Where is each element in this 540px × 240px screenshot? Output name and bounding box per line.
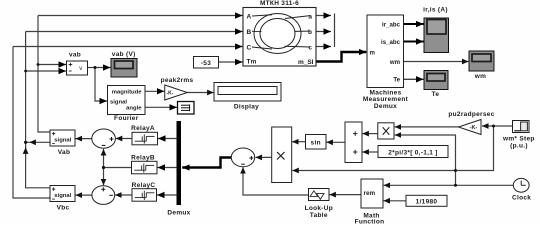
wire constant -53 to Tm <box>219 61 243 63</box>
scope wm <box>469 51 494 80</box>
svg-text:m: m <box>370 50 376 57</box>
svg-text:-53: -53 <box>201 60 211 67</box>
svg-text:Te: Te <box>432 91 440 98</box>
wire vab minus tap <box>26 70 66 72</box>
svg-text:Tm: Tm <box>247 59 257 66</box>
wire gain to Display <box>187 92 213 94</box>
svg-text:c: c <box>308 44 312 51</box>
svg-text:B: B <box>247 29 252 36</box>
sin block <box>306 135 327 150</box>
svg-text:Table: Table <box>310 212 328 219</box>
wire Fourier angle to terminator <box>145 106 177 108</box>
product X tall <box>272 127 292 183</box>
constant 2*pi/3*[0,-1,1] <box>378 146 448 158</box>
svg-text:Fourier: Fourier <box>114 115 139 122</box>
svg-text:sin: sin <box>311 140 321 147</box>
wire RelayA to Vab sum <box>116 138 132 140</box>
svg-text:wm: wm <box>389 59 401 66</box>
svg-text:vab (V): vab (V) <box>112 51 136 58</box>
step source wm* Step <box>502 121 535 150</box>
svg-text:a: a <box>308 13 312 20</box>
wire machine output a <box>316 15 331 17</box>
wire Te to scope <box>404 78 424 80</box>
svg-text:A: A <box>247 13 252 20</box>
Demux bus bar <box>167 121 190 217</box>
svg-text:m_SI: m_SI <box>298 59 314 66</box>
wire sin to product X <box>292 141 305 143</box>
svg-text:wm: wm <box>474 73 486 80</box>
svg-text:Demux: Demux <box>374 103 397 110</box>
wire vab plus tap <box>38 64 66 66</box>
rem Math Function block <box>355 179 385 226</box>
wire wm to scope <box>404 61 469 63</box>
Vbc sum circle <box>92 186 115 205</box>
wire machine output c <box>316 46 331 48</box>
Machines Measurement Demux block <box>363 15 409 110</box>
wire gain output to product <box>395 126 459 128</box>
svg-text:RelayB: RelayB <box>131 155 155 162</box>
sum block rectangle <box>345 122 362 163</box>
svg-text:is_abc: is_abc <box>381 39 401 46</box>
svg-text:C: C <box>247 44 252 51</box>
constant -53 <box>194 57 219 69</box>
svg-text:2*pi/3*[ 0,-1,1 ]: 2*pi/3*[ 0,-1,1 ] <box>388 150 438 157</box>
wire lookup to sum circle bottom <box>243 167 309 195</box>
wire ir_abc to scope thick <box>404 23 424 25</box>
svg-text:RelayA: RelayA <box>131 125 155 132</box>
RelayB block <box>131 155 157 174</box>
gain pu2radpersec <box>448 111 494 135</box>
wire rem to lookup <box>329 194 361 196</box>
wire Fourier magnitude to gain <box>145 90 164 92</box>
wire Vab sum to Vab source <box>76 138 92 140</box>
scope Te <box>424 71 448 99</box>
wire phase C top <box>13 47 243 199</box>
wire Vab source output to node <box>26 142 50 153</box>
svg-text:signal: signal <box>54 193 71 199</box>
svg-text:RelayC: RelayC <box>132 182 156 189</box>
scope ir,is (A) <box>423 7 448 53</box>
RelayA block <box>131 125 157 145</box>
wire product X to sum circle <box>256 156 272 158</box>
Vbc controlled voltage source <box>50 186 75 212</box>
svg-text:ir,is (A): ir,is (A) <box>423 7 448 14</box>
svg-text:v: v <box>79 66 82 72</box>
svg-text:angle: angle <box>126 106 142 112</box>
wire RelayC to Vbc sum <box>115 194 132 196</box>
Vab controlled voltage source <box>50 130 75 156</box>
sum circle right <box>231 148 254 167</box>
Fourier block <box>108 86 146 123</box>
wire vab block output to scope <box>88 67 111 69</box>
svg-text:Function: Function <box>355 219 385 225</box>
svg-text:magnitude: magnitude <box>112 90 143 96</box>
wire bus stub vertical <box>334 14 336 48</box>
svg-text:vab: vab <box>69 51 81 58</box>
wire demux to RelayC <box>157 194 177 196</box>
Vab sum circle <box>92 129 116 148</box>
wire Vbc sum to Vbc source <box>76 194 92 196</box>
svg-text:Te: Te <box>393 77 400 84</box>
wire sum to sin <box>326 141 345 143</box>
wire clock to rem <box>384 184 514 186</box>
svg-text:-K-: -K- <box>167 91 174 97</box>
wire m_SI to demux m thick <box>316 52 366 62</box>
wire phase A top <box>38 16 243 133</box>
wire RelayB to node <box>104 149 132 185</box>
wire demux to RelayB <box>158 167 177 169</box>
svg-text:b: b <box>308 29 312 36</box>
svg-text:rem: rem <box>364 190 376 197</box>
wire clock branch up to product <box>395 135 456 185</box>
wire 1/1980 to rem <box>384 200 407 202</box>
wire sum circle to demux thick <box>182 158 231 168</box>
asynchronous machine MTKH 311-6 <box>243 0 316 66</box>
wire step to gain <box>482 125 513 127</box>
peak2rms gain <box>161 77 194 100</box>
svg-text:peak2rms: peak2rms <box>161 77 194 84</box>
wire vab output to Fourier <box>95 68 107 102</box>
constant 1/1980 <box>406 195 447 206</box>
svg-text:signal: signal <box>110 99 127 105</box>
wire phase B top <box>26 32 243 188</box>
Clock <box>512 178 531 201</box>
svg-text:(p.u.): (p.u.) <box>510 142 528 149</box>
Display block <box>214 83 281 111</box>
svg-text:1/1980: 1/1980 <box>416 199 438 206</box>
vab (V) scope <box>111 51 137 77</box>
svg-text:ir_abc: ir_abc <box>382 22 401 29</box>
wire constant 2pi3 to sum bottom <box>362 151 378 153</box>
angle terminator block <box>178 102 195 115</box>
product block small <box>378 123 394 139</box>
svg-text:Demux: Demux <box>167 210 190 217</box>
Look-Up Table block <box>305 189 333 220</box>
vab voltage measurement block <box>67 51 88 75</box>
svg-text:МТКН 311-6: МТКН 311-6 <box>260 0 299 7</box>
RelayC block <box>132 182 157 201</box>
svg-text:signal: signal <box>54 137 71 143</box>
wire machine output b <box>316 31 331 33</box>
wire demux to RelayA <box>158 138 177 140</box>
svg-text:Display: Display <box>234 104 259 111</box>
svg-text:Vbc: Vbc <box>57 205 70 212</box>
svg-text:pu2radpersec: pu2radpersec <box>448 111 494 118</box>
svg-text:Clock: Clock <box>512 195 531 202</box>
wire product to sum top <box>362 133 377 135</box>
svg-text:-K-: -K- <box>470 125 478 131</box>
wire step branch down to product row <box>292 126 493 171</box>
svg-text:Vab: Vab <box>58 149 70 156</box>
wire is_abc to scope thick <box>404 41 424 43</box>
